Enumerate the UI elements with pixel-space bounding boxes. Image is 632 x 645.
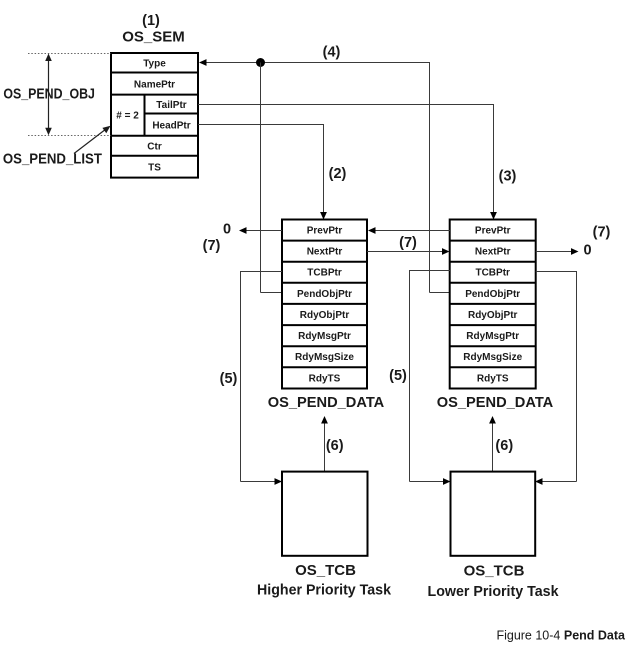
right PEND_DATA field RdyMsgPtr bbox=[466, 331, 519, 342]
left PEND_DATA field RdyMsgSize bbox=[295, 352, 354, 363]
label OS_PEND_OBJ bbox=[3, 86, 95, 103]
label (6) left bbox=[326, 438, 344, 454]
right PEND_DATA field RdyTS bbox=[477, 373, 509, 384]
svg-text:# = 2: # = 2 bbox=[116, 111, 139, 122]
label (4) bbox=[323, 45, 341, 61]
svg-text:(6): (6) bbox=[495, 438, 513, 454]
svg-text:OS_TCB: OS_TCB bbox=[295, 562, 356, 579]
label 0 (right) bbox=[583, 243, 591, 259]
svg-text:OS_SEM: OS_SEM bbox=[122, 28, 185, 45]
right PEND_DATA field NextPtr bbox=[475, 247, 511, 258]
svg-text:Lower Priority Task: Lower Priority Task bbox=[428, 583, 560, 600]
svg-text:Type: Type bbox=[143, 59, 166, 70]
wire (2): HeadPtr -> left PrevPtr bbox=[198, 125, 327, 220]
wire (6): right TCB -> right OS_PEND_DATA bbox=[489, 416, 496, 472]
label left OS_PEND_DATA bbox=[268, 394, 385, 411]
svg-text:RdyMsgSize: RdyMsgSize bbox=[295, 352, 354, 363]
svg-text:OS_TCB: OS_TCB bbox=[464, 563, 525, 580]
right PEND_DATA field PrevPtr bbox=[475, 226, 511, 237]
label (2) bbox=[329, 166, 347, 182]
right OS_TCB box bbox=[451, 472, 536, 556]
svg-text:Ctr: Ctr bbox=[147, 142, 162, 153]
svg-text:OS_PEND_LIST: OS_PEND_LIST bbox=[3, 151, 102, 168]
svg-text:RdyTS: RdyTS bbox=[477, 373, 509, 384]
double arrow OS_PEND_OBJ span bbox=[45, 54, 52, 136]
svg-text:PrevPtr: PrevPtr bbox=[307, 226, 343, 237]
label (7) right bbox=[593, 225, 611, 241]
label (7) middle bbox=[399, 235, 417, 251]
svg-text:RdyMsgPtr: RdyMsgPtr bbox=[466, 331, 519, 342]
left PEND_DATA field PrevPtr bbox=[307, 226, 343, 237]
OS_SEM field TailPtr bbox=[156, 100, 186, 111]
OS_SEM field HeadPtr bbox=[152, 121, 190, 132]
arrow OS_PEND_LIST to # = 2 bbox=[74, 126, 111, 154]
left PEND_DATA field RdyTS bbox=[309, 373, 341, 384]
OS_SEM cell # = 2 bbox=[116, 111, 139, 122]
svg-text:TailPtr: TailPtr bbox=[156, 100, 186, 111]
OS_SEM field TS bbox=[148, 163, 161, 174]
svg-text:(5): (5) bbox=[389, 368, 407, 384]
OS_SEM box bbox=[111, 53, 198, 178]
right PEND_DATA field RdyObjPtr bbox=[468, 310, 518, 321]
label right OS_PEND_DATA bbox=[437, 394, 554, 411]
left PEND_DATA field TCBPtr bbox=[307, 268, 342, 279]
svg-text:RdyObjPtr: RdyObjPtr bbox=[300, 310, 350, 321]
label (6) right bbox=[495, 438, 513, 454]
wire (4): right PendObjPtr -> up -> left to Type bbox=[199, 59, 450, 292]
svg-text:(2): (2) bbox=[329, 166, 347, 182]
OS_SEM field NamePtr bbox=[134, 80, 175, 91]
svg-text:Figure 10-4 Pend Data: Figure 10-4 Pend Data bbox=[496, 629, 626, 643]
left PEND_DATA field RdyObjPtr bbox=[300, 310, 350, 321]
wire (7): left NextPtr -> right box bbox=[367, 248, 450, 255]
svg-text:(1): (1) bbox=[142, 13, 160, 29]
svg-text:(3): (3) bbox=[499, 169, 517, 185]
OS_SEM field Ctr bbox=[147, 142, 162, 153]
svg-text:RdyMsgSize: RdyMsgSize bbox=[463, 352, 522, 363]
label (1) bbox=[142, 13, 160, 29]
junction dot bbox=[256, 58, 265, 67]
wire (5): right TCBPtr -> right TCB (left side) bbox=[409, 271, 451, 485]
label (7) left bbox=[203, 238, 221, 254]
svg-text:(4): (4) bbox=[323, 45, 341, 61]
label OS_SEM bbox=[122, 28, 185, 45]
svg-text:TCBPtr: TCBPtr bbox=[475, 268, 510, 279]
wire (3): TailPtr -> right PrevPtr bbox=[198, 105, 497, 220]
label Lower Priority Task bbox=[428, 583, 560, 600]
label (5) right bbox=[389, 368, 407, 384]
label left OS_TCB bbox=[295, 562, 356, 579]
right PEND_DATA field TCBPtr bbox=[475, 268, 510, 279]
svg-text:OS_PEND_OBJ: OS_PEND_OBJ bbox=[3, 86, 95, 103]
wire (7): right NextPtr -> 0 (right) bbox=[536, 248, 579, 255]
svg-text:(6): (6) bbox=[326, 438, 344, 454]
svg-text:OS_PEND_DATA: OS_PEND_DATA bbox=[268, 394, 385, 411]
wire (7): right PrevPtr -> left box bbox=[368, 227, 450, 234]
svg-text:(7): (7) bbox=[593, 225, 611, 241]
wire (7): left PrevPtr -> 0 (left) bbox=[239, 227, 282, 234]
svg-text:HeadPtr: HeadPtr bbox=[152, 121, 190, 132]
OS_SEM field Type bbox=[143, 59, 166, 70]
label OS_PEND_LIST bbox=[3, 151, 102, 168]
left PEND_DATA field RdyMsgPtr bbox=[298, 331, 351, 342]
right PEND_DATA field RdyMsgSize bbox=[463, 352, 522, 363]
svg-text:PendObjPtr: PendObjPtr bbox=[465, 289, 520, 300]
label Higher Priority Task bbox=[257, 582, 392, 599]
left OS_TCB box bbox=[282, 472, 368, 556]
label (5) left bbox=[220, 371, 238, 387]
dashed line bottom bbox=[28, 135, 111, 137]
right PEND_DATA field PendObjPtr bbox=[465, 289, 520, 300]
svg-text:PrevPtr: PrevPtr bbox=[475, 226, 511, 237]
caption Figure 10-4 Pend Data bbox=[496, 629, 626, 643]
wire: right TCBPtr -> right TCB (right side) bbox=[535, 272, 577, 485]
svg-text:PendObjPtr: PendObjPtr bbox=[297, 289, 352, 300]
right OS_PEND_DATA box bbox=[450, 220, 536, 389]
wire: dot down to left PendObjPtr bbox=[261, 63, 283, 293]
svg-text:NamePtr: NamePtr bbox=[134, 80, 175, 91]
wire (6): left TCB -> left OS_PEND_DATA bbox=[321, 416, 328, 472]
svg-text:OS_PEND_DATA: OS_PEND_DATA bbox=[437, 394, 554, 411]
label right OS_TCB bbox=[464, 563, 525, 580]
svg-text:(7): (7) bbox=[399, 235, 417, 251]
left OS_PEND_DATA box bbox=[282, 220, 367, 389]
svg-text:RdyObjPtr: RdyObjPtr bbox=[468, 310, 518, 321]
svg-text:0: 0 bbox=[583, 243, 591, 259]
wire (5): left TCBPtr -> left TCB bbox=[240, 272, 282, 485]
svg-text:TCBPtr: TCBPtr bbox=[307, 268, 342, 279]
svg-text:(5): (5) bbox=[220, 371, 238, 387]
left PEND_DATA field PendObjPtr bbox=[297, 289, 352, 300]
dashed line top bbox=[28, 53, 111, 55]
svg-text:RdyMsgPtr: RdyMsgPtr bbox=[298, 331, 351, 342]
svg-text:TS: TS bbox=[148, 163, 161, 174]
svg-text:RdyTS: RdyTS bbox=[309, 373, 341, 384]
svg-text:0: 0 bbox=[223, 222, 231, 238]
svg-text:(7): (7) bbox=[203, 238, 221, 254]
label (3) bbox=[499, 169, 517, 185]
left PEND_DATA field NextPtr bbox=[307, 247, 343, 258]
svg-text:NextPtr: NextPtr bbox=[307, 247, 343, 258]
label 0 (left) bbox=[223, 222, 231, 238]
svg-text:NextPtr: NextPtr bbox=[475, 247, 511, 258]
svg-text:Higher Priority Task: Higher Priority Task bbox=[257, 582, 392, 599]
